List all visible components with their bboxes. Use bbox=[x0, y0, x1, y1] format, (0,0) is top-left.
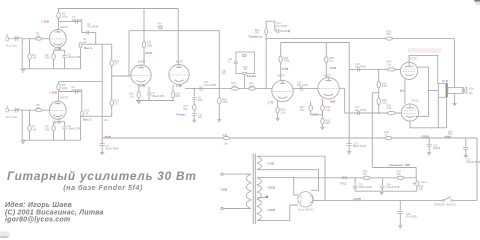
label 6П3С bbox=[412, 98, 419, 102]
svg-text:+285В: +285В bbox=[421, 134, 430, 138]
capacitor C6 bbox=[62, 122, 80, 141]
node -0.5V bbox=[311, 113, 318, 117]
resistor R5 bbox=[45, 122, 55, 141]
ground bbox=[427, 153, 431, 155]
resistor R31 bbox=[387, 103, 396, 114]
ground bbox=[275, 118, 279, 120]
node 6.3V bbox=[267, 161, 275, 165]
wire bbox=[82, 22, 96, 45]
wire grid leak bbox=[29, 110, 31, 125]
svg-text:47н 630В: 47н 630В bbox=[406, 215, 417, 218]
wire bbox=[218, 104, 220, 120]
capacitor C2 bbox=[62, 50, 80, 69]
capacitor C19 bbox=[347, 142, 366, 151]
wire HV bottom bbox=[257, 205, 298, 220]
svg-text:+310В: +310В bbox=[352, 197, 361, 201]
wire bbox=[244, 75, 246, 89]
svg-text:16мкФ: 16мкФ bbox=[433, 147, 441, 150]
node bias -50V bbox=[389, 163, 411, 167]
svg-text:220к: 220к bbox=[249, 84, 255, 88]
wire vol down bbox=[265, 35, 267, 89]
wire rail2 bbox=[281, 42, 350, 44]
svg-text:8мкФ 450В: 8мкФ 450В bbox=[106, 147, 119, 150]
ground bbox=[380, 193, 384, 195]
wire coupling bbox=[293, 87, 318, 89]
volume pot R23 bbox=[255, 28, 268, 35]
wire HV top bbox=[262, 177, 299, 195]
label speaker bbox=[469, 88, 474, 95]
transformer HV winding bbox=[257, 178, 261, 221]
node Fender bbox=[176, 112, 185, 116]
wire bbox=[193, 117, 195, 121]
triode V3a 6Н2П bbox=[272, 80, 293, 101]
wire plate top bbox=[409, 55, 438, 83]
resistor R2 bbox=[36, 32, 42, 41]
corner mark bbox=[474, 0, 480, 5]
capacitor C23 bbox=[353, 178, 372, 191]
svg-text:220к: 220к bbox=[222, 100, 228, 104]
wire bbox=[21, 38, 50, 40]
svg-text:220к: 220к bbox=[382, 101, 388, 105]
transformer core bbox=[253, 154, 255, 225]
transformer Тр1 primary bbox=[246, 174, 251, 208]
capacitor C7 bbox=[147, 87, 165, 101]
wire B+ to OT bbox=[453, 39, 455, 88]
svg-text:Смещ: Смещ bbox=[421, 181, 428, 184]
wire bbox=[311, 111, 323, 115]
wire feedback bbox=[218, 31, 226, 98]
svg-text:25мкФ 25В: 25мкФ 25В bbox=[68, 56, 81, 59]
node 1.8V bbox=[176, 84, 182, 88]
resistor R27 bbox=[300, 105, 313, 112]
wire plate bottom bbox=[410, 98, 447, 128]
capacitor C25 bbox=[398, 200, 417, 225]
ground bbox=[21, 141, 26, 144]
wire bbox=[454, 93, 456, 103]
svg-text:25мкФ 25В: 25мкФ 25В bbox=[68, 128, 81, 131]
node 200V bbox=[145, 51, 152, 55]
svg-text:~300В: ~300В bbox=[267, 208, 276, 212]
wire cathode bbox=[54, 118, 65, 122]
svg-text:16мкФ 400В: 16мкФ 400В bbox=[386, 186, 400, 189]
svg-text:1.7В: 1.7В bbox=[139, 84, 145, 88]
svg-text:Гитарный усилитель 30 Вт: Гитарный усилитель 30 Вт bbox=[7, 169, 197, 183]
svg-text:1М: 1М bbox=[84, 111, 88, 115]
node 1.66V bbox=[49, 90, 57, 94]
resistor R32 bbox=[377, 81, 388, 88]
wire bbox=[193, 100, 195, 105]
node 2.2V bbox=[55, 121, 61, 125]
wire mixer bus bbox=[111, 44, 113, 116]
resistor R16 bbox=[171, 91, 180, 100]
svg-text:8мкФ 450В: 8мкФ 450В bbox=[353, 145, 366, 148]
ground bbox=[21, 70, 26, 73]
wire standby line bbox=[319, 199, 444, 201]
resistor R35 bbox=[384, 130, 391, 140]
svg-text:(С) 2001 Висагинас, Литва: (С) 2001 Висагинас, Литва bbox=[5, 209, 104, 216]
svg-text:820: 820 bbox=[325, 121, 330, 125]
wire anode up bbox=[58, 81, 60, 100]
ground bbox=[192, 120, 196, 122]
bottom left line bbox=[0, 232, 10, 239]
label 6П3С bbox=[410, 57, 417, 61]
node 1.7V bbox=[139, 84, 145, 88]
node 270V bbox=[282, 67, 289, 71]
svg-text:270В: 270В bbox=[282, 67, 289, 71]
wire anode out bbox=[59, 21, 82, 23]
ground bus stage1 bbox=[22, 68, 81, 70]
triode V2b 6Н2П bbox=[169, 65, 189, 85]
wire rail2 drop bbox=[348, 43, 350, 144]
wire bbox=[128, 31, 130, 76]
wire anode up bbox=[58, 9, 60, 30]
svg-text:~300В: ~300В bbox=[267, 185, 276, 189]
wire bbox=[428, 138, 430, 144]
svg-text:1.8В: 1.8В bbox=[176, 84, 182, 88]
resistor R7 bbox=[28, 125, 36, 132]
svg-text:1М: 1М bbox=[32, 127, 36, 131]
rectifier V6 5Ц4С bbox=[298, 192, 313, 207]
svg-text:Тр.В: Тр.В bbox=[442, 79, 448, 83]
svg-text:Идея: Игорь Шаев: Идея: Игорь Шаев bbox=[5, 201, 73, 209]
label 6Н2П bbox=[61, 95, 68, 99]
wire bbox=[325, 43, 327, 57]
wire bottom coupling bbox=[339, 88, 400, 113]
wire bbox=[277, 113, 279, 118]
node 1.66V bbox=[41, 20, 49, 24]
capacitor C24 bbox=[380, 178, 400, 191]
wire HV CT bbox=[257, 196, 268, 198]
wire bias tap bbox=[372, 93, 378, 168]
wire bias row bbox=[294, 177, 417, 179]
wire bbox=[80, 116, 82, 140]
svg-text:6Н2П: 6Н2П bbox=[61, 95, 68, 99]
node Вых 2 bbox=[83, 118, 91, 122]
svg-text:igor80@lycos.com: igor80@lycos.com bbox=[5, 216, 70, 223]
svg-text:6Н2П: 6Н2П bbox=[138, 60, 145, 64]
node 56V bbox=[330, 99, 335, 103]
ground bus stage2 bbox=[21, 139, 80, 141]
resistor R10 bbox=[80, 109, 89, 117]
svg-text:Смещение - 50В: Смещение - 50В bbox=[389, 163, 411, 167]
wire grid bbox=[395, 112, 401, 114]
capacitor C12 bbox=[276, 22, 287, 33]
resistor R12 27k bbox=[110, 99, 120, 106]
resistor R37 bbox=[397, 169, 404, 179]
node 220V bbox=[220, 187, 227, 191]
triode V1a 6Н2П bbox=[50, 29, 67, 47]
resistor R9 bbox=[57, 83, 68, 90]
node 300V bbox=[267, 208, 276, 212]
label 6Н2П bbox=[324, 74, 331, 78]
wire cathode V2b bbox=[172, 85, 174, 92]
transformer Тр2 winding bar bbox=[446, 83, 448, 98]
capacitor C5 bbox=[71, 85, 82, 94]
resistor R34 bbox=[223, 133, 230, 146]
wire vol top bbox=[266, 21, 275, 31]
resistor R17 bbox=[183, 104, 196, 111]
wire grid bbox=[395, 68, 400, 70]
wire bias bus bbox=[378, 69, 380, 114]
svg-text:6П3С: 6П3С bbox=[410, 57, 417, 61]
capacitor C21 bbox=[427, 144, 441, 152]
resistor R25 bbox=[325, 56, 335, 63]
svg-text:16мкФ 450В: 16мкФ 450В bbox=[466, 161, 480, 164]
resistor R33 bbox=[377, 98, 388, 105]
wire cathode bus bbox=[136, 100, 175, 102]
ground bbox=[217, 120, 221, 122]
wire anode out bbox=[59, 91, 82, 93]
svg-text:220В: 220В bbox=[220, 187, 227, 191]
wire bbox=[280, 43, 282, 57]
wire cathode V2a bbox=[138, 85, 140, 92]
svg-text:200В: 200В bbox=[145, 51, 152, 55]
wire top rail bbox=[58, 8, 179, 10]
wire bbox=[465, 138, 467, 147]
wire bbox=[280, 63, 282, 81]
wire bbox=[275, 30, 287, 32]
transformer heater winding bbox=[257, 156, 261, 170]
svg-text:100к: 100к bbox=[62, 14, 68, 18]
capacitor C9 bbox=[192, 96, 204, 102]
wire bbox=[29, 131, 31, 140]
svg-text:1.66В: 1.66В bbox=[41, 20, 49, 24]
wire B+ drop bbox=[101, 44, 103, 143]
svg-text:25мкФ 25В: 25мкФ 25В bbox=[152, 95, 165, 98]
wire cathode link bbox=[404, 79, 406, 104]
svg-text:Вых 1: Вых 1 bbox=[84, 46, 92, 50]
svg-text:Вых 2: Вых 2 bbox=[83, 118, 91, 122]
capacitor C3 bbox=[72, 15, 83, 24]
resistor R20 bbox=[231, 81, 238, 90]
resistor R24 bbox=[279, 56, 290, 63]
transformer Тр2 secondary bbox=[448, 87, 463, 93]
svg-text:10н 250В: 10н 250В bbox=[276, 25, 287, 28]
speaker Гр1 bbox=[463, 88, 467, 94]
wire loop bbox=[129, 30, 219, 32]
node Громкость bbox=[249, 34, 263, 38]
svg-text:6Н2П: 6Н2П bbox=[324, 74, 331, 78]
wire signal bbox=[185, 88, 272, 90]
svg-text:20н 400В: 20н 400В bbox=[355, 65, 366, 68]
wire out1 bbox=[81, 43, 112, 45]
node +310V bbox=[421, 134, 430, 138]
wire cathode bbox=[54, 46, 65, 50]
author line3 bbox=[5, 216, 70, 223]
wire screen bus bbox=[415, 67, 428, 116]
triode V3b 6Н2П bbox=[318, 78, 339, 99]
label 6Н2П bbox=[176, 60, 183, 64]
capacitor C22 bbox=[463, 148, 480, 165]
svg-text:20н 400В: 20н 400В bbox=[87, 25, 98, 29]
wire bbox=[437, 97, 439, 128]
resistor R1 bbox=[28, 53, 36, 60]
node 300V bbox=[267, 185, 276, 189]
node 280V bbox=[104, 135, 111, 139]
input jack J2 bbox=[6, 105, 22, 140]
svg-text:5ц4с (5U4C): 5ц4с (5U4C) bbox=[298, 208, 313, 212]
svg-text:2.2В: 2.2В bbox=[55, 121, 61, 125]
svg-text:1М: 1М bbox=[104, 119, 107, 122]
resistor bright bottom bbox=[242, 72, 247, 74]
wire bbox=[193, 110, 195, 113]
svg-text:100к: 100к bbox=[62, 86, 68, 90]
svg-text:100н 250В: 100н 250В bbox=[204, 84, 216, 87]
watermark bbox=[408, 48, 441, 53]
wire rail1 bbox=[266, 38, 454, 40]
node 1.7V bbox=[267, 100, 273, 104]
wire bbox=[325, 63, 327, 78]
resistor R4 bbox=[45, 50, 55, 69]
wire grid leak bbox=[29, 39, 31, 54]
pentode V4 6П3С bbox=[401, 62, 418, 79]
fuse Пр1 bbox=[340, 177, 348, 186]
svg-text:6Н2П: 6Н2П bbox=[61, 25, 68, 29]
label bright R bbox=[243, 67, 248, 71]
mains terminal bbox=[221, 173, 246, 175]
node 270V bbox=[329, 66, 336, 70]
ground bbox=[398, 226, 402, 228]
resistor R6 bbox=[79, 37, 87, 48]
svg-text:1М: 1М bbox=[83, 40, 87, 44]
svg-text:6Н2П: 6Н2П bbox=[278, 73, 285, 77]
svg-text:(на базе Fender 5f4): (на базе Fender 5f4) bbox=[63, 183, 143, 192]
wire B+ stage2 bbox=[59, 80, 103, 82]
resistor R39 bbox=[386, 31, 393, 41]
resistor R3 bbox=[57, 12, 68, 19]
svg-text:5Гн: 5Гн bbox=[448, 133, 453, 136]
capacitor C11 bbox=[192, 113, 203, 119]
capacitor C10 bbox=[200, 81, 216, 91]
pentode V5 6П3С bbox=[401, 104, 418, 121]
capacitor bright left bbox=[228, 59, 237, 63]
svg-text:1.66В: 1.66В bbox=[49, 90, 57, 94]
resistor bright top bbox=[243, 54, 247, 56]
ground bbox=[100, 153, 104, 155]
ground bbox=[137, 101, 141, 103]
mains terminal bbox=[221, 207, 246, 209]
node 2.2V bbox=[55, 47, 61, 51]
author line2 bbox=[5, 209, 104, 216]
wire screen to OT bbox=[428, 90, 439, 92]
svg-text:6П3С: 6П3С bbox=[412, 98, 419, 102]
wire anode V2b bbox=[177, 9, 179, 65]
node Вых 1 bbox=[84, 46, 92, 50]
wire out2 bbox=[81, 116, 112, 122]
resistor R28 bbox=[321, 105, 331, 112]
svg-text:Fender: Fender bbox=[176, 112, 185, 116]
svg-text:20н 400В: 20н 400В bbox=[355, 109, 366, 112]
node Тр.В bbox=[442, 79, 448, 83]
wire bbox=[322, 124, 324, 127]
wire grid V2a bbox=[112, 75, 131, 77]
wire cathode bbox=[277, 101, 279, 107]
ground bbox=[464, 155, 468, 157]
ground bbox=[347, 152, 351, 154]
svg-text:~6.3В: ~6.3В bbox=[267, 161, 275, 165]
svg-text:100к: 100к bbox=[231, 84, 237, 88]
choke Др1 bbox=[445, 130, 454, 137]
wire bias feed bbox=[372, 167, 416, 169]
resistor R18 bbox=[218, 97, 229, 104]
svg-text:20н 400В: 20н 400В bbox=[71, 88, 82, 92]
title bbox=[7, 169, 197, 183]
resistor R13 bbox=[142, 41, 153, 48]
resistor R29 bbox=[321, 115, 331, 125]
svg-text:25мкФ 400В: 25мкФ 400В bbox=[358, 186, 372, 189]
resistor R8 bbox=[36, 103, 42, 112]
svg-text:ПРЕД: ПРЕД bbox=[340, 182, 347, 185]
svg-text:4Ом: 4Ом bbox=[469, 88, 474, 91]
label standby bbox=[434, 204, 456, 207]
ground bbox=[320, 127, 324, 129]
wire rectifier out bbox=[313, 199, 318, 201]
triode V2a 6Н2П bbox=[131, 65, 151, 85]
svg-text:820: 820 bbox=[175, 94, 180, 98]
wire anode V2a bbox=[143, 9, 145, 65]
cathode tick bbox=[401, 89, 405, 92]
label 5Ц4С bbox=[298, 208, 313, 212]
svg-text:820: 820 bbox=[45, 56, 50, 60]
resistor R21 bbox=[249, 81, 256, 90]
svg-text:R34: R34 bbox=[223, 133, 228, 137]
label 6Н2П bbox=[278, 73, 285, 77]
svg-text:1.7В: 1.7В bbox=[267, 100, 273, 104]
node bright label bbox=[247, 74, 257, 78]
wire B+ line bbox=[102, 137, 478, 139]
capacitor C17 bbox=[355, 106, 366, 115]
capacitor C8 bbox=[100, 144, 119, 153]
svg-text:Вх.2 (бас): Вх.2 (бас) bbox=[6, 115, 18, 119]
label 6Н2П bbox=[138, 60, 145, 64]
wire bbox=[453, 138, 478, 200]
capacitor C14 bbox=[297, 82, 308, 91]
wire bbox=[29, 60, 31, 69]
svg-text:100к: 100к bbox=[284, 59, 290, 63]
input jack J1 bbox=[6, 34, 22, 69]
svg-text:20н 400В: 20н 400В bbox=[297, 84, 308, 87]
resistor R36 bbox=[363, 169, 370, 179]
wire bbox=[80, 48, 82, 69]
svg-text:270В: 270В bbox=[329, 66, 336, 70]
node +310V bbox=[352, 197, 361, 201]
triode V1b 6Н2П bbox=[50, 101, 67, 119]
capacitor C4 bbox=[87, 22, 99, 35]
bright network box bbox=[236, 52, 255, 74]
resistor R30 bbox=[387, 60, 396, 71]
wire splitter lower bbox=[311, 99, 323, 105]
transformer Тр2 primary box bbox=[438, 84, 446, 98]
resistor R15 bbox=[129, 92, 141, 101]
resistor R11 27k bbox=[110, 59, 120, 66]
wire heater bottom bbox=[262, 170, 319, 191]
wire bias bottom bus bbox=[355, 190, 417, 192]
subtitle bbox=[63, 183, 143, 192]
svg-text:200п: 200п bbox=[198, 99, 204, 102]
svg-text:Вх.1 (гит): Вх.1 (гит) bbox=[6, 44, 17, 48]
standby switch bbox=[443, 197, 453, 202]
svg-text:820: 820 bbox=[45, 127, 50, 131]
wiper arrow bbox=[287, 29, 290, 32]
svg-text:6Н2П: 6Н2П bbox=[176, 60, 183, 64]
wire heater top bbox=[262, 156, 326, 200]
resistor R14 bbox=[158, 24, 163, 29]
svg-text:56В: 56В bbox=[330, 99, 335, 103]
wire top coupling bbox=[349, 68, 400, 70]
svg-text:220к: 220к bbox=[382, 84, 388, 88]
wire eq chain bbox=[193, 88, 195, 97]
resistor R26 bbox=[276, 107, 286, 114]
